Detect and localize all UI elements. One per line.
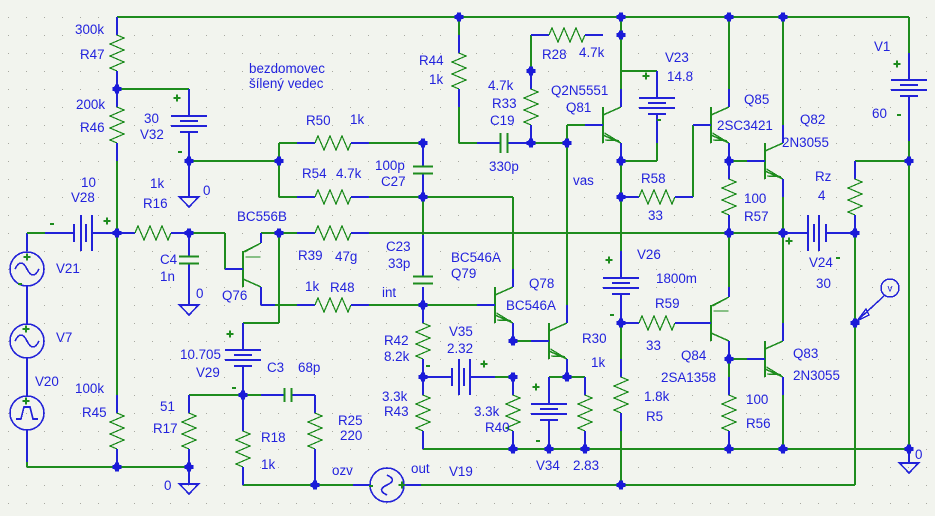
Q76 collector corner bbox=[261, 304, 275, 306]
node R28 right bbox=[617, 31, 626, 40]
resistor R45 100k bbox=[110, 395, 124, 467]
node V26-R59 bbox=[617, 319, 626, 328]
wire Q81 collector to R28 node bbox=[620, 35, 622, 89]
wire R39 left stub bbox=[279, 232, 297, 234]
svg-text:V26: V26 bbox=[637, 247, 661, 262]
polarity + V21 bbox=[24, 254, 31, 261]
wire output column x855 bbox=[854, 233, 856, 485]
svg-text:V28: V28 bbox=[71, 190, 95, 205]
svg-text:2N3055: 2N3055 bbox=[782, 135, 829, 150]
node R40 bottom bbox=[509, 445, 518, 454]
capacitor C19 330p bbox=[477, 133, 531, 153]
wire R30 top wire bbox=[567, 376, 585, 378]
polarity - V1 bbox=[897, 114, 901, 116]
svg-text:int: int bbox=[382, 285, 396, 300]
battery V34 2.83 bbox=[531, 377, 567, 449]
svg-text:0: 0 bbox=[203, 183, 210, 198]
node bottom rail R17 bbox=[185, 463, 194, 472]
polarity - V34 bbox=[536, 440, 540, 442]
svg-text:BC546A: BC546A bbox=[506, 298, 556, 313]
node V29-R17-R18-C3 bbox=[239, 391, 248, 400]
svg-text:C23: C23 bbox=[386, 239, 411, 254]
svg-text:R40: R40 bbox=[485, 420, 510, 435]
resistor R59 33 bbox=[621, 316, 693, 330]
svg-text:Q81: Q81 bbox=[566, 100, 591, 115]
V21-V7 link bbox=[26, 285, 28, 325]
svg-text:R33: R33 bbox=[492, 96, 517, 111]
svg-text:Q82: Q82 bbox=[800, 112, 825, 127]
transistor Q81 Q2N5551 bbox=[585, 89, 621, 161]
source V7 bbox=[10, 324, 44, 358]
svg-text:R50: R50 bbox=[306, 113, 331, 128]
svg-text:R18: R18 bbox=[261, 430, 286, 445]
polarity - V19 bbox=[369, 485, 373, 487]
battery V32 30 bbox=[171, 89, 207, 161]
capacitor C4 1n bbox=[179, 233, 199, 287]
polarity + V20 bbox=[23, 398, 30, 405]
source V19 bbox=[370, 468, 404, 502]
V21 top lead bbox=[26, 233, 28, 251]
svg-text:V19: V19 bbox=[449, 464, 473, 479]
svg-text:V20: V20 bbox=[35, 374, 59, 389]
wire Q76 emitter stub to node bbox=[261, 232, 279, 234]
svg-text:R44: R44 bbox=[419, 53, 444, 68]
svg-text:33: 33 bbox=[648, 208, 663, 223]
wire V32 top bbox=[117, 88, 189, 90]
polarity - V29 bbox=[232, 387, 236, 389]
node Q79 emitter bbox=[509, 337, 518, 346]
wire Rz top from V1 node bbox=[855, 160, 909, 162]
svg-text:2.83: 2.83 bbox=[573, 458, 599, 473]
svg-text:BC556B: BC556B bbox=[237, 209, 287, 224]
polarity - V23 bbox=[657, 119, 661, 121]
wire R18 bottom to ozv node bbox=[243, 484, 315, 486]
svg-text:V29: V29 bbox=[196, 365, 220, 380]
transistor Q82 2N3055 bbox=[747, 125, 783, 197]
node output rail Q82 bbox=[779, 229, 788, 238]
polarity + V29 bbox=[227, 331, 234, 338]
node Q83 emitter bottom bbox=[779, 445, 788, 454]
node Q85 emitter bbox=[725, 157, 734, 166]
V19 right lead bbox=[403, 484, 421, 486]
svg-text:1k: 1k bbox=[591, 355, 605, 370]
wire V34 top wire bbox=[549, 376, 567, 378]
svg-text:1k: 1k bbox=[429, 72, 443, 87]
ground 0 bottom left bbox=[180, 484, 199, 494]
svg-text:R5: R5 bbox=[646, 409, 663, 424]
svg-text:30: 30 bbox=[816, 276, 831, 291]
node Q76 emitter bbox=[275, 229, 284, 238]
resistor R18 1k bbox=[236, 413, 250, 485]
node R50-R54 left bbox=[275, 157, 284, 166]
wire V1 column to ground rail bbox=[908, 161, 910, 449]
svg-text:200k: 200k bbox=[76, 97, 105, 112]
node C27 bottom bbox=[419, 193, 428, 202]
svg-text:2SC3421: 2SC3421 bbox=[717, 118, 773, 133]
R25 bottom stub bbox=[314, 467, 316, 485]
svg-text:V34: V34 bbox=[536, 458, 560, 473]
svg-text:10: 10 bbox=[81, 175, 96, 190]
svg-text:51: 51 bbox=[160, 399, 175, 414]
svg-text:R25: R25 bbox=[338, 413, 363, 428]
polarity - V24 bbox=[836, 257, 840, 259]
svg-text:2.32: 2.32 bbox=[447, 341, 473, 356]
wire Q84 collector node to R56 bbox=[728, 359, 730, 377]
wire C19 left wire bbox=[459, 107, 477, 143]
svg-text:4.7k: 4.7k bbox=[488, 78, 514, 93]
polarity - V21 bbox=[18, 283, 22, 285]
wire left column down to R45 bbox=[116, 233, 118, 395]
svg-text:60: 60 bbox=[872, 106, 887, 121]
wire Q83 base wire bbox=[729, 358, 747, 360]
wire R28 left corner bbox=[531, 34, 549, 36]
svg-text:100: 100 bbox=[744, 191, 766, 206]
svg-text:2SA1358: 2SA1358 bbox=[661, 370, 716, 385]
polarity - V35 bbox=[426, 365, 430, 367]
wire R50/R54 left vertical bbox=[278, 143, 280, 197]
svg-text:Rz: Rz bbox=[815, 169, 832, 184]
svg-text:V24: V24 bbox=[809, 255, 833, 270]
svg-text:Q84: Q84 bbox=[681, 348, 707, 363]
V1 bottom lead bbox=[908, 125, 910, 141]
svg-text:300k: 300k bbox=[75, 22, 104, 37]
polarity + V1 bbox=[894, 61, 901, 68]
svg-text:R54: R54 bbox=[302, 166, 327, 181]
svg-text:3.3k: 3.3k bbox=[382, 389, 408, 404]
capacitor C23 33p bbox=[422, 235, 424, 276]
svg-text:R58: R58 bbox=[641, 171, 666, 186]
wire V32 bottom to R50/R54 node bbox=[189, 160, 279, 162]
node R16-C4 bbox=[185, 229, 194, 238]
svg-text:R30: R30 bbox=[582, 331, 607, 346]
svg-text:10.705: 10.705 bbox=[180, 347, 221, 362]
node C19-R33 bbox=[527, 139, 536, 148]
battery V35 2.32 bbox=[423, 359, 495, 395]
svg-text:8.2k: 8.2k bbox=[384, 349, 410, 364]
battery V28 10 bbox=[45, 215, 117, 251]
svg-text:4: 4 bbox=[818, 188, 826, 203]
svg-text:R39: R39 bbox=[298, 248, 323, 263]
svg-text:30: 30 bbox=[144, 111, 159, 126]
resistor R50 1k bbox=[297, 136, 369, 150]
wire R50 left stub bbox=[279, 142, 297, 144]
wire R54 right to C27 bottom bbox=[369, 196, 423, 198]
node int node bbox=[419, 301, 428, 310]
node R56 bottom bbox=[725, 445, 734, 454]
polarity + V34 bbox=[533, 384, 540, 391]
svg-text:šílený vedec: šílený vedec bbox=[249, 76, 324, 91]
ground lead bottom left bbox=[188, 467, 190, 484]
svg-text:0: 0 bbox=[915, 447, 922, 462]
wire x567 VAS column bbox=[566, 143, 568, 305]
svg-text:1k: 1k bbox=[350, 112, 364, 127]
wire Q78 base wire bbox=[513, 340, 531, 342]
ground 0 right bbox=[900, 463, 919, 473]
svg-text:1n: 1n bbox=[160, 269, 175, 284]
svg-text:2N3055: 2N3055 bbox=[793, 368, 840, 383]
svg-text:R57: R57 bbox=[744, 209, 769, 224]
svg-text:1k: 1k bbox=[150, 176, 164, 191]
node probe attach bbox=[851, 319, 860, 328]
battery V29 10.705 bbox=[225, 323, 261, 395]
resistor R16 1k bbox=[117, 226, 189, 240]
wire R5 bottom to out rail bbox=[620, 431, 622, 485]
node R30 bottom bbox=[581, 445, 590, 454]
svg-text:v: v bbox=[888, 284, 893, 295]
svg-text:3.3k: 3.3k bbox=[474, 404, 500, 419]
resistor R56 100 bbox=[722, 377, 736, 449]
node bottom rail R45 bbox=[113, 463, 122, 472]
svg-text:Q78: Q78 bbox=[529, 276, 554, 291]
wire R58 right up to Q85 base bbox=[692, 125, 694, 197]
svg-text:V1: V1 bbox=[874, 39, 890, 54]
polarity + V32 bbox=[174, 95, 181, 102]
transistor Q83 2N3055 bbox=[747, 323, 783, 395]
R44 top wire bbox=[458, 17, 460, 35]
transistor Q76 BC556B bbox=[225, 233, 261, 305]
node Q78 emitter bbox=[563, 373, 572, 382]
polarity + V24 bbox=[786, 238, 793, 245]
wire V29 node to C3 bbox=[243, 394, 261, 396]
transistor Q79 BC546A bbox=[477, 269, 513, 341]
V19 left lead bbox=[353, 484, 371, 486]
node V1 minus bbox=[905, 157, 914, 166]
wire V19 to output bottom rail bbox=[421, 484, 855, 486]
wire int node to Q79 base bbox=[423, 304, 477, 306]
node Q84 collector-Q83 base bbox=[725, 355, 734, 364]
svg-text:R42: R42 bbox=[384, 333, 409, 348]
svg-text:330p: 330p bbox=[489, 159, 519, 174]
wire feedback column x279 bbox=[243, 233, 279, 323]
svg-text:47g: 47g bbox=[335, 249, 357, 264]
V20 bottom lead bbox=[26, 429, 28, 462]
source V20 bbox=[10, 396, 44, 430]
polarity - V28 bbox=[50, 223, 54, 225]
resistor R42 8.2k bbox=[416, 305, 430, 377]
wire R48 right to int node bbox=[369, 304, 423, 306]
wire R58 node down to V26 bbox=[620, 197, 622, 251]
V1 top lead bbox=[908, 17, 910, 53]
svg-text:out: out bbox=[411, 461, 430, 476]
node R5-out rail bbox=[617, 481, 626, 490]
wire Q85 collector to rail bbox=[728, 17, 730, 89]
capacitor C27 100p bbox=[413, 143, 433, 197]
wire Q83 emitter down bbox=[782, 395, 784, 449]
node Q81 emitter bbox=[617, 157, 626, 166]
wire Q81 emitter node to R58 bbox=[620, 161, 622, 197]
svg-text:4.7k: 4.7k bbox=[579, 45, 605, 60]
wire C19 right to x567 bbox=[531, 142, 567, 144]
resistor R58 33 bbox=[621, 190, 693, 204]
svg-text:33: 33 bbox=[646, 338, 661, 353]
svg-text:V21: V21 bbox=[56, 261, 80, 276]
node output rail Q84 bbox=[725, 229, 734, 238]
svg-text:bezdomovec: bezdomovec bbox=[249, 61, 325, 76]
polarity + V28 bbox=[104, 218, 111, 225]
node top rail / R44 bbox=[455, 13, 464, 22]
transistor Q78 BC546A bbox=[531, 305, 567, 377]
svg-text:Q83: Q83 bbox=[793, 346, 818, 361]
battery V1 60 bbox=[891, 53, 927, 125]
resistor R48 1k bbox=[297, 298, 369, 312]
wire R50 right to C27 top bbox=[369, 142, 423, 144]
svg-text:C3: C3 bbox=[267, 360, 284, 375]
polarity + V35 bbox=[481, 361, 488, 368]
wire V21 top to V28 bbox=[27, 232, 45, 234]
resistor R39 47g bbox=[297, 226, 369, 240]
transistor Q84 2SA1358 bbox=[693, 287, 729, 359]
wire R54 left stub bbox=[279, 196, 297, 198]
svg-text:Q76: Q76 bbox=[222, 288, 247, 303]
svg-text:Q85: Q85 bbox=[744, 92, 769, 107]
svg-text:R28: R28 bbox=[542, 47, 567, 62]
svg-text:1800m: 1800m bbox=[656, 271, 697, 286]
wire ozv node to V19 bbox=[315, 484, 353, 486]
node C19-Q81 bbox=[563, 139, 572, 148]
resistor R40 3.3k bbox=[506, 377, 520, 449]
resistor R57 100 bbox=[722, 161, 736, 233]
node V35-R40 bbox=[509, 373, 518, 382]
svg-text:1k: 1k bbox=[305, 279, 319, 294]
polarity + V7 bbox=[23, 326, 30, 333]
resistor R17 51 bbox=[182, 395, 196, 467]
wire Q82 collector to rail bbox=[782, 17, 784, 125]
svg-text:R45: R45 bbox=[82, 405, 107, 420]
polarity - V32 bbox=[178, 151, 182, 153]
node R47-R46-V32 bbox=[113, 85, 122, 94]
svg-text:1k: 1k bbox=[261, 457, 275, 472]
ground 0 below V32 bbox=[180, 197, 199, 207]
svg-text:Q2N5551: Q2N5551 bbox=[551, 83, 608, 98]
R18 top lead bbox=[242, 395, 244, 413]
svg-text:68p: 68p bbox=[298, 360, 320, 375]
node R28 left bbox=[527, 67, 536, 76]
battery V24 30 bbox=[783, 215, 855, 251]
transistor Q85 2SC3421 bbox=[693, 89, 729, 161]
resistor R30 1k bbox=[578, 377, 592, 449]
node top rail / Q85 bbox=[725, 13, 734, 22]
svg-text:V35: V35 bbox=[449, 324, 473, 339]
wire ground rail y449 bbox=[423, 448, 909, 450]
svg-text:220: 220 bbox=[340, 428, 362, 443]
resistor R43 3.3k bbox=[416, 377, 430, 449]
svg-text:V7: V7 bbox=[56, 330, 72, 345]
battery V26 1800m bbox=[603, 251, 639, 323]
svg-text:V32: V32 bbox=[140, 127, 164, 142]
svg-text:14.8: 14.8 bbox=[667, 69, 693, 84]
wire output node to Q84 emitter bbox=[728, 233, 730, 287]
resistor Rz 4 bbox=[848, 161, 862, 233]
wire V23 bottom connect bbox=[621, 143, 657, 161]
wire Q82 emitter down to output node bbox=[782, 197, 784, 233]
svg-text:33p: 33p bbox=[388, 256, 410, 271]
C4 ground lead bbox=[188, 265, 190, 304]
svg-text:100p: 100p bbox=[375, 158, 405, 173]
svg-text:R17: R17 bbox=[153, 421, 178, 436]
resistor R47 300k bbox=[110, 17, 124, 89]
wire bottom left rail bbox=[27, 430, 189, 467]
ground 0 below C4 bbox=[180, 305, 199, 315]
resistor R5 1.8k bbox=[614, 359, 628, 431]
polarity + V26 bbox=[606, 257, 613, 264]
wire V29 node left to R17 bbox=[189, 394, 243, 396]
wire Q76 collector to R48 bbox=[275, 304, 297, 306]
svg-text:R59: R59 bbox=[655, 296, 680, 311]
resistor R28 4.7k bbox=[531, 28, 603, 42]
polarity + V23 bbox=[643, 73, 650, 80]
svg-text:C4: C4 bbox=[160, 252, 178, 267]
node ozv node bbox=[311, 481, 320, 490]
wire R46 bottom to V28 node bbox=[116, 161, 118, 233]
svg-text:BC546A: BC546A bbox=[451, 250, 501, 265]
svg-text:0: 0 bbox=[164, 478, 171, 493]
capacitor C3 68p bbox=[261, 394, 285, 396]
voltage probe bbox=[857, 279, 899, 321]
wire V26 bottom to R5 bbox=[620, 323, 622, 359]
wire R28 node stub bbox=[620, 17, 622, 35]
node C27 top bbox=[419, 139, 428, 148]
wire Q82 base wire bbox=[729, 160, 747, 162]
wire R39 right to output rail bbox=[369, 232, 783, 234]
wire Q81 base wire bbox=[567, 125, 585, 143]
svg-text:4.7k: 4.7k bbox=[336, 166, 362, 181]
svg-text:100k: 100k bbox=[75, 381, 104, 396]
resistor R44 1k bbox=[452, 35, 466, 107]
V32 ground lead bbox=[188, 161, 190, 197]
node V24-Rz bbox=[851, 229, 860, 238]
node R58 junction bbox=[617, 193, 626, 202]
svg-text:R47: R47 bbox=[80, 47, 105, 62]
resistor R33 4.7k bbox=[524, 71, 538, 143]
wire C27 node to Q79 collector bbox=[423, 197, 513, 269]
polarity + V19 bbox=[399, 482, 406, 489]
svg-text:V23: V23 bbox=[665, 50, 689, 65]
svg-text:R16: R16 bbox=[143, 196, 168, 211]
svg-text:ozv: ozv bbox=[332, 463, 353, 478]
node V28-R16 bbox=[113, 229, 122, 238]
svg-text:C27: C27 bbox=[381, 174, 406, 189]
resistor R25 220 bbox=[308, 395, 322, 467]
svg-text:R56: R56 bbox=[746, 416, 771, 431]
wire Q83 collector up bbox=[782, 233, 784, 323]
V7-V20 link bbox=[26, 357, 28, 397]
node top rail / R28 bbox=[617, 13, 626, 22]
svg-text:R46: R46 bbox=[80, 120, 105, 135]
node R42-V35 bbox=[419, 373, 428, 382]
polarity - V26 bbox=[610, 314, 614, 316]
resistor R46 200k bbox=[110, 89, 124, 161]
svg-text:vas: vas bbox=[573, 173, 594, 188]
node V34 bottom bbox=[545, 445, 554, 454]
wire C27 node down to C23 bbox=[422, 197, 424, 235]
svg-text:R48: R48 bbox=[330, 280, 355, 295]
node ground rail right bbox=[905, 445, 914, 454]
svg-text:Q79: Q79 bbox=[451, 266, 476, 281]
svg-text:R43: R43 bbox=[384, 404, 409, 419]
ground lead right bbox=[908, 449, 910, 463]
source V21 bbox=[10, 252, 44, 286]
resistor R54 4.7k bbox=[297, 190, 369, 204]
wire V23 top connect bbox=[621, 70, 657, 72]
svg-text:0: 0 bbox=[196, 286, 203, 301]
wire top +60V rail bbox=[117, 16, 909, 18]
wire R28 left vertical bbox=[530, 35, 532, 71]
svg-text:C19: C19 bbox=[490, 113, 515, 128]
node V32 minus bbox=[185, 157, 194, 166]
wire V28 node to Q76 base corner bbox=[189, 233, 225, 269]
battery V23 14.8 bbox=[639, 71, 675, 143]
node top rail / Q82 bbox=[779, 13, 788, 22]
